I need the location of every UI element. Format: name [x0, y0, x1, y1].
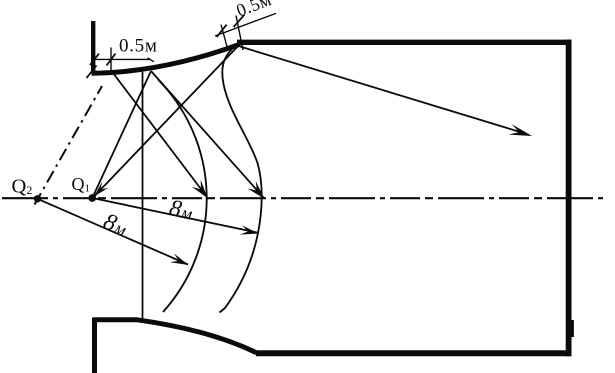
- wall: curved top baffle: [92, 44, 241, 73]
- ray R4: baffle to right arc: [151, 71, 264, 198]
- svg-text:Q1: Q1: [72, 174, 91, 195]
- radius arrow R6: Q1 to right arc (8m): [92, 198, 257, 233]
- dimension line 0.5m left: [94, 58, 150, 60]
- wall: top horizontal: [237, 40, 571, 45]
- svg-text:0.5м: 0.5м: [234, 0, 275, 21]
- dim2 extension line 2: [236, 16, 243, 51]
- wall: bottom horizontal: [256, 350, 571, 356]
- centerline (dash-dot axis): [2, 197, 608, 199]
- dimension line 0.5m right (slanted): [215, 13, 276, 36]
- wall: bottom-left vertical thick: [92, 318, 97, 373]
- dim2 slash 2: [234, 15, 245, 27]
- dim1 slash at extension: [107, 54, 116, 66]
- arrowhead of R7: [170, 253, 188, 265]
- dim1 extension line: [110, 48, 112, 71]
- svg-text:0.5м: 0.5м: [119, 36, 158, 57]
- ray R1: Q1 to baffle point: [92, 71, 151, 198]
- right wavefront arc (center Q1 radius 8m): [220, 49, 262, 313]
- svg-text:8м: 8м: [167, 195, 195, 225]
- left wavefront arc (center Q2 radius 8m): [158, 80, 207, 313]
- arrowhead of R2 at Q1: [94, 182, 108, 197]
- wall: top-left vertical thick: [91, 21, 95, 71]
- dim1 slash at wall: [90, 54, 99, 66]
- arrowhead of R6: [240, 225, 259, 234]
- slash at baffle corner: [87, 66, 97, 79]
- point Q1: [88, 194, 96, 202]
- wall: curved bottom baffle: [94, 320, 257, 353]
- ray R3: baffle to left arc: [113, 73, 207, 197]
- dim2 slash 1: [217, 25, 227, 37]
- dim1 end tick: [148, 58, 155, 62]
- arrowhead of R4: [248, 181, 265, 199]
- ink blob on right wall: [571, 320, 574, 337]
- dash-dot line Q2 to wall corner: [35, 86, 103, 205]
- point Q2: [34, 195, 41, 202]
- svg-text:Q2: Q2: [12, 176, 33, 198]
- ray R2: corner to Q1: [95, 44, 240, 196]
- ray R5: corner long arrow to the right: [240, 47, 525, 134]
- vertical thin line through curve vertex: [142, 72, 144, 319]
- arrowhead of R3: [192, 180, 208, 198]
- wall: right vertical: [566, 40, 572, 357]
- svg-text:8м: 8м: [100, 208, 131, 241]
- arrowhead of R5: [508, 124, 532, 136]
- radius arrow R7: Q2 to left arc (8m): [38, 199, 189, 265]
- dim2 extension line 1: [221, 25, 228, 49]
